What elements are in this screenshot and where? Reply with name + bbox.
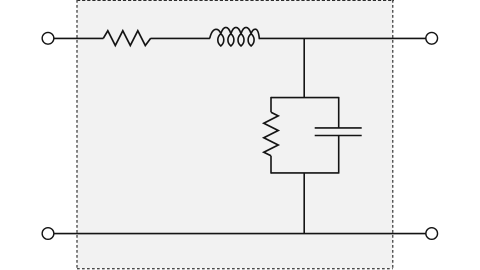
wire: capacitor C1 to bottom rail xyxy=(338,136,340,174)
resistor R2 (shunt, vertical) xyxy=(264,112,278,156)
terminal port bottom-right xyxy=(426,228,438,240)
wire: top rail to capacitor C1 xyxy=(338,97,340,128)
capacitor C1 top plate xyxy=(315,127,362,129)
inductor L1 (series, 4 loops) xyxy=(210,27,260,46)
wire: inductor L1 to top-right terminal xyxy=(259,37,426,39)
wire: parallel block bottom rail xyxy=(271,172,339,174)
terminal port top-right xyxy=(426,32,438,44)
wire: parallel block down to bottom junction xyxy=(303,173,305,234)
resistor R1 (series, horizontal) xyxy=(103,31,150,46)
wire: parallel block top rail xyxy=(271,97,339,99)
dashed enclosure (two-port network boundary) xyxy=(77,0,394,269)
wire: resistor R2 to bottom rail xyxy=(270,156,272,174)
terminal port bottom-left xyxy=(42,228,54,240)
wire: top-left terminal to resistor R1 xyxy=(54,37,103,39)
wire: bottom rail left terminal to right terminal xyxy=(54,233,426,235)
terminal port top-left xyxy=(42,32,54,44)
wire: resistor R1 to inductor L1 xyxy=(151,37,210,39)
wire: top rail to resistor R2 xyxy=(270,97,272,112)
wire: top junction down to parallel block xyxy=(303,38,305,98)
capacitor C1 bottom plate xyxy=(315,135,362,137)
